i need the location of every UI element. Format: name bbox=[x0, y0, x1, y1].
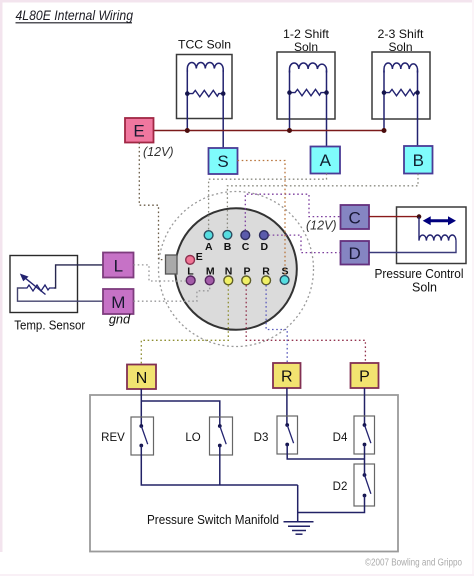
wire C to coil (red) bbox=[369, 216, 419, 218]
wire TCC right leg to S bbox=[222, 70, 224, 148]
svg-text:©2007 Bowling and Grippo: ©2007 Bowling and Grippo bbox=[365, 558, 462, 569]
node R box bbox=[273, 363, 301, 388]
inductor 1-2 shift coil bbox=[290, 63, 327, 73]
svg-text:E: E bbox=[133, 122, 144, 141]
svg-text:4L80E Internal Wiring: 4L80E Internal Wiring bbox=[16, 7, 134, 23]
svg-text:Pressure Switch Manifold: Pressure Switch Manifold bbox=[147, 513, 279, 527]
pin N bbox=[224, 276, 233, 285]
wire temp sensor to L bbox=[54, 265, 103, 288]
wire coil to D bbox=[369, 241, 456, 253]
node L box bbox=[103, 253, 134, 278]
node D box bbox=[341, 241, 370, 265]
svg-text:N: N bbox=[225, 266, 233, 278]
svg-text:S: S bbox=[281, 266, 288, 278]
svg-text:R: R bbox=[262, 266, 270, 278]
pin E bbox=[186, 256, 195, 265]
wire R box to pin R (dotted) bbox=[266, 285, 287, 363]
node N box bbox=[127, 365, 156, 390]
wire M box to pin M (dotted) bbox=[134, 285, 210, 301]
pin M bbox=[205, 276, 214, 285]
node B box bbox=[404, 146, 433, 174]
pressure control soln label bbox=[375, 267, 464, 295]
resistor 1-2 shift bbox=[290, 89, 327, 95]
svg-text:R: R bbox=[281, 369, 293, 386]
connector key tab bbox=[166, 255, 178, 274]
junction 2-3 resistor left bbox=[382, 90, 387, 95]
svg-text:M: M bbox=[206, 266, 215, 278]
svg-text:S: S bbox=[217, 152, 228, 171]
wire E box to pin E (dotted) bbox=[139, 143, 165, 260]
pin C bbox=[241, 231, 250, 240]
switch D3 bbox=[277, 416, 298, 454]
inductor TCC coil bbox=[187, 62, 223, 72]
wire 1-2 left leg bbox=[289, 71, 291, 131]
pin D bbox=[260, 231, 269, 240]
wire P box to pin P (dotted) bbox=[246, 285, 365, 363]
connector body circle bbox=[175, 208, 297, 330]
2-3 shift solenoid label bbox=[378, 27, 425, 54]
junction bus TCC bbox=[185, 128, 190, 133]
svg-text:D4: D4 bbox=[333, 432, 348, 444]
junction bus 2-3 bbox=[382, 128, 387, 133]
junction pcs bbox=[417, 214, 422, 219]
node P box bbox=[351, 363, 379, 388]
resistor TCC bbox=[187, 90, 223, 96]
wire D3 to D4-D2 bbox=[287, 445, 364, 476]
pressure switch manifold box bbox=[90, 395, 398, 552]
wire REV LO to ground bbox=[141, 446, 297, 486]
node S box bbox=[209, 148, 238, 174]
svg-text:D: D bbox=[261, 241, 269, 253]
svg-text:P: P bbox=[359, 369, 370, 386]
resistor 2-3 shift bbox=[384, 89, 418, 95]
svg-text:Pressure Control: Pressure Control bbox=[375, 267, 464, 281]
svg-text:D: D bbox=[349, 244, 361, 263]
svg-text:Soln: Soln bbox=[412, 281, 437, 295]
svg-text:(12V): (12V) bbox=[143, 145, 174, 159]
svg-text:TCC Soln: TCC Soln bbox=[178, 38, 231, 52]
svg-text:D2: D2 bbox=[333, 481, 348, 493]
1-2 shift solenoid box bbox=[277, 52, 335, 119]
arrow pcs double-headed bbox=[423, 216, 456, 225]
switch D2 bbox=[354, 464, 375, 506]
svg-text:gnd: gnd bbox=[109, 312, 131, 327]
junction bus 1-2 bbox=[287, 128, 292, 133]
wire L box to pin L (dotted) bbox=[134, 265, 187, 281]
svg-text:E: E bbox=[196, 251, 203, 263]
2-3 shift solenoid box bbox=[372, 52, 430, 119]
wire N to REV and LO bbox=[141, 389, 220, 426]
node A box bbox=[311, 147, 341, 174]
ground bbox=[284, 522, 314, 534]
pin B bbox=[223, 230, 232, 239]
switch REV bbox=[131, 417, 154, 455]
svg-text:Temp. Sensor: Temp. Sensor bbox=[14, 318, 86, 333]
wire 2-3 right leg to B bbox=[417, 71, 419, 147]
connector outer dashed circle bbox=[159, 192, 314, 347]
switch LO bbox=[210, 417, 233, 455]
wire 1-2 right leg to A bbox=[326, 71, 328, 147]
junction TCC resistor right bbox=[221, 91, 226, 96]
pin R bbox=[262, 276, 271, 285]
svg-text:P: P bbox=[243, 266, 250, 278]
svg-text:A: A bbox=[205, 241, 213, 253]
TCC solenoid box bbox=[177, 55, 233, 119]
pin L bbox=[186, 276, 195, 285]
junction 2-3 resistor right bbox=[415, 90, 420, 95]
svg-text:2-3 Shift: 2-3 Shift bbox=[378, 27, 425, 41]
wire S box to pin S (dotted) bbox=[238, 161, 286, 276]
temp sensor box bbox=[10, 256, 78, 313]
junction 1-2 resistor left bbox=[287, 90, 292, 95]
svg-text:A: A bbox=[320, 151, 332, 170]
svg-text:C: C bbox=[242, 241, 250, 253]
wire N box to pin N (dotted) bbox=[141, 285, 228, 364]
title 4L80E Internal Wiring bbox=[16, 7, 134, 23]
svg-text:(12V): (12V) bbox=[306, 219, 337, 233]
svg-text:B: B bbox=[413, 151, 424, 170]
svg-text:L: L bbox=[187, 266, 194, 278]
svg-text:D3: D3 bbox=[254, 432, 269, 444]
junction 1-2 resistor right bbox=[324, 90, 329, 95]
svg-text:N: N bbox=[136, 370, 148, 387]
svg-text:M: M bbox=[111, 293, 125, 312]
svg-text:C: C bbox=[349, 209, 361, 228]
wire 12V bus bbox=[154, 130, 385, 132]
1-2 shift solenoid label bbox=[283, 27, 330, 54]
wire B box to pin B (dotted) bbox=[227, 174, 418, 231]
svg-text:L: L bbox=[114, 257, 123, 276]
switch D4 bbox=[354, 416, 375, 454]
node E box bbox=[125, 118, 154, 143]
pin A bbox=[204, 231, 213, 240]
node M box bbox=[103, 289, 134, 314]
svg-text:REV: REV bbox=[101, 432, 125, 444]
wire D2 to ground bbox=[298, 496, 365, 513]
wire TCC left leg bbox=[186, 70, 188, 131]
svg-text:LO: LO bbox=[185, 432, 200, 444]
inductor pcs coil bbox=[419, 217, 456, 241]
pressure control solenoid box bbox=[397, 207, 467, 264]
wire temp sensor to M bbox=[18, 288, 104, 301]
wire C box to pin C (dotted) bbox=[245, 194, 340, 230]
wire R to D3 bbox=[286, 388, 288, 425]
wire P to D4 bbox=[364, 388, 366, 425]
thermistor temp sensor bbox=[20, 274, 54, 295]
svg-text:B: B bbox=[224, 241, 232, 253]
inductor 2-3 shift coil bbox=[384, 63, 418, 73]
node C box bbox=[341, 205, 370, 229]
wire ground drop bbox=[297, 485, 299, 522]
wire A box to pin A (dotted) bbox=[209, 174, 327, 231]
pin S bbox=[280, 276, 289, 285]
svg-text:1-2 Shift: 1-2 Shift bbox=[283, 27, 330, 41]
junction TCC resistor left bbox=[185, 91, 190, 96]
pin P bbox=[242, 276, 251, 285]
wire 2-3 left leg bbox=[383, 71, 385, 131]
wire D box to pin D (dotted) bbox=[269, 235, 341, 253]
